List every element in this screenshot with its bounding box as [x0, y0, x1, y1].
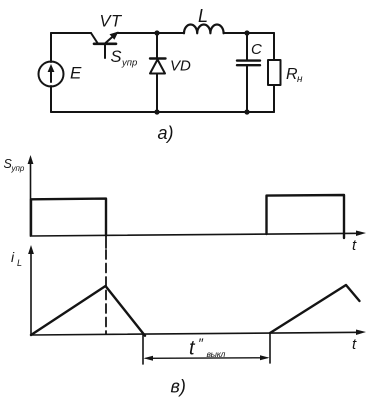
- svg-text:упр: упр: [121, 58, 137, 69]
- svg-text:t: t: [352, 237, 357, 254]
- node junction capacitor top: [244, 30, 249, 35]
- iL ramp waveform 2: [270, 285, 360, 333]
- label v) caption: [171, 377, 186, 397]
- S plot t-axis: [31, 231, 367, 237]
- svg-text:L: L: [198, 6, 208, 26]
- wire right branch vertical: [273, 33, 275, 112]
- label S_upr (control input of VT): [111, 48, 138, 69]
- label VD: [170, 58, 191, 75]
- S pulse 1: [31, 199, 106, 236]
- svg-text:L: L: [17, 258, 22, 268]
- svg-text:E: E: [70, 64, 82, 83]
- iL plot t-axis: [31, 330, 366, 336]
- svg-text:VT: VT: [100, 13, 124, 31]
- svg-text:в): в): [171, 377, 186, 397]
- label VT: [100, 13, 124, 31]
- svg-text:VD: VD: [170, 58, 191, 75]
- label L: [198, 6, 208, 26]
- svg-text:t: t: [352, 336, 357, 353]
- dimension tick left: [142, 335, 144, 365]
- S plot y-axis: [28, 155, 34, 236]
- node junction capacitor bottom: [244, 109, 249, 114]
- inductor L: [184, 24, 224, 33]
- wire left vertical (E branch): [50, 33, 52, 112]
- label Rn: [286, 66, 303, 85]
- iL plot y-axis: [28, 245, 34, 335]
- wire from transistor to inductor: [117, 32, 184, 34]
- resistor Rn: [268, 60, 281, 85]
- svg-text:S: S: [111, 48, 122, 66]
- dimension tick right: [269, 334, 271, 364]
- transistor VT: [91, 32, 119, 59]
- wire bottom rail: [51, 111, 274, 113]
- svg-text:t: t: [189, 338, 196, 360]
- label C: [251, 41, 262, 58]
- svg-text:C: C: [251, 41, 262, 58]
- S pulse 2: [267, 195, 345, 238]
- svg-text:выкл: выкл: [207, 349, 226, 359]
- svg-text:а): а): [158, 123, 174, 143]
- svg-text:″: ″: [198, 335, 204, 351]
- dimension arrow t''vykl: [144, 355, 270, 361]
- svg-text:i: i: [11, 249, 15, 265]
- current source E: [39, 62, 64, 87]
- label t (S plot axis): [352, 237, 357, 254]
- label t (iL plot axis): [352, 336, 357, 353]
- svg-text:упр: упр: [11, 164, 25, 173]
- label iL axis: [11, 249, 22, 268]
- wire from inductor to right corner: [224, 32, 274, 34]
- node junction diode bottom: [154, 109, 159, 114]
- label E: [70, 64, 82, 83]
- svg-text:н: н: [297, 74, 303, 85]
- label a) caption: [158, 123, 174, 143]
- iL triangle waveform 1: [31, 286, 145, 336]
- wire top-left from source E to transistor: [51, 32, 91, 34]
- label S_upr axis: [4, 157, 25, 173]
- dashed line from pulse edge to iL peak: [105, 235, 107, 334]
- label t''vykl: [189, 335, 225, 360]
- diode VD: [150, 33, 166, 112]
- node junction diode top: [154, 30, 159, 35]
- capacitor C: [237, 33, 260, 112]
